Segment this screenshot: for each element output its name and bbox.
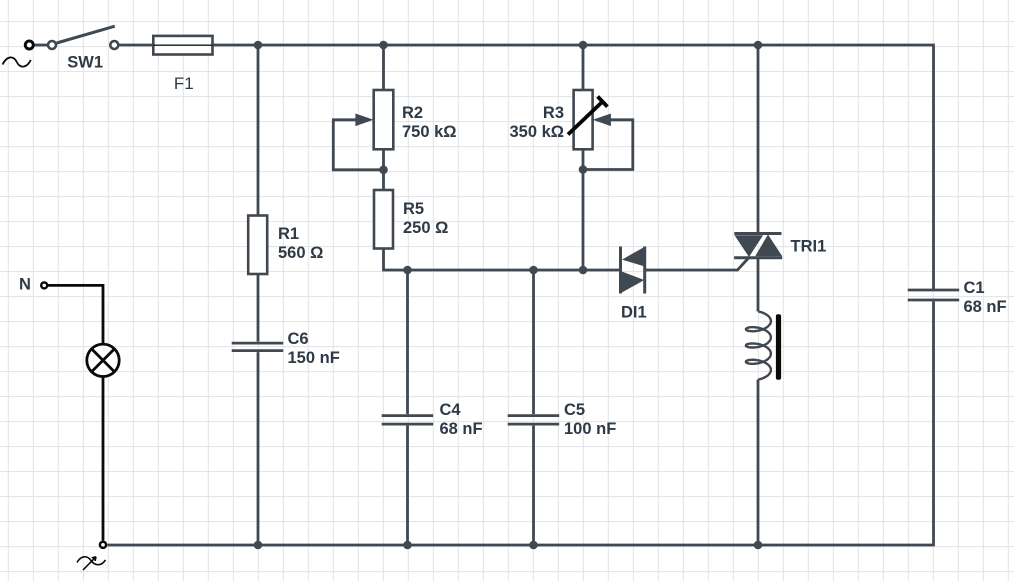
diac DI1 lower triangle	[621, 271, 645, 293]
diac DI1 left bar	[619, 247, 622, 294]
junction dot mid rail / R3	[579, 266, 588, 275]
svg-text:C1: C1	[964, 279, 985, 297]
wire: N to lamp	[47, 285, 103, 344]
wire: terminal to switch	[35, 44, 49, 47]
wire: diac to triac gate	[645, 258, 749, 270]
capacitor C5 plates	[508, 416, 560, 425]
inductor L1 coil	[746, 312, 771, 380]
R3 adjustment mark (screwdriver slot)	[568, 102, 603, 135]
R2 wiper return wire	[333, 120, 383, 170]
svg-text:750 kΩ: 750 kΩ	[402, 123, 457, 141]
svg-text:R5: R5	[403, 200, 424, 218]
wire: top rail down to R3	[582, 45, 585, 90]
junction dot bottom rail / C5 branch	[529, 541, 538, 550]
R3 wiper return wire	[583, 120, 633, 170]
capacitor C1 plates	[908, 290, 960, 300]
svg-text:68 nF: 68 nF	[964, 298, 1007, 316]
svg-text:SW1: SW1	[67, 54, 103, 72]
switch SW1 right contact	[110, 41, 118, 49]
svg-text:TRI1: TRI1	[791, 238, 827, 256]
resistor R1 body	[248, 216, 267, 275]
svg-text:560 Ω: 560 Ω	[278, 244, 323, 262]
switch SW1 left contact	[48, 41, 56, 49]
wire: lamp to bottom terminal	[102, 377, 105, 541]
svg-text:350 kΩ: 350 kΩ	[509, 123, 564, 141]
svg-text:150 nF: 150 nF	[288, 349, 340, 367]
junction dot top rail / R1 branch	[254, 41, 263, 50]
diac DI1 upper triangle	[622, 247, 645, 267]
junction dot top rail / R3 branch	[579, 41, 588, 50]
fuse F1 body	[153, 36, 212, 55]
node N terminal	[41, 282, 47, 288]
lamp LA1 cross	[92, 349, 115, 372]
wire: top rail (fuse to top-right corner, down right side to C1)	[213, 45, 934, 290]
svg-text:68 nF: 68 nF	[440, 420, 483, 438]
wire: C1 down right side to bottom-right corner	[108, 302, 934, 546]
wire: R1 to C6	[257, 274, 260, 342]
wire: C5 to bottom rail	[532, 426, 535, 545]
triac TRI1 left triangle	[735, 235, 764, 257]
junction dot top rail / TRI1 branch	[754, 41, 763, 50]
wire: top rail down to R1	[257, 45, 260, 216]
triac TRI1 bottom bar	[734, 256, 782, 259]
phase squiggle diagonal arrow	[83, 557, 96, 570]
fuse F1 element line	[153, 44, 212, 46]
svg-text:100 nF: 100 nF	[564, 420, 616, 438]
wire: top rail down to TRI1	[757, 45, 760, 234]
lamp LA1 circle	[87, 344, 119, 376]
svg-text:R3: R3	[543, 104, 564, 122]
junction dot bottom rail / C6 branch	[254, 541, 263, 550]
wire: R5 bottom to mid rail	[384, 249, 621, 271]
junction dot top rail / R2 branch	[379, 41, 388, 50]
svg-text:R1: R1	[278, 225, 299, 243]
junction dot mid rail / C5	[529, 266, 538, 275]
switch SW1 lever	[57, 26, 115, 43]
svg-text:N: N	[19, 275, 31, 293]
phase squiggle symbol (tilde)	[77, 557, 106, 565]
svg-text:C5: C5	[564, 401, 585, 419]
junction dot R2 wiper node	[379, 166, 388, 175]
triac TRI1 right triangle	[755, 235, 782, 257]
svg-text:C6: C6	[288, 330, 309, 348]
wire: C6 to bottom rail	[257, 352, 260, 545]
wire: R3 bottom to mid rail	[582, 149, 585, 270]
wire: switch to fuse	[119, 44, 154, 47]
svg-text:F1: F1	[174, 74, 194, 93]
wire: top rail down to R2	[382, 45, 385, 90]
junction dot R3 wiper node	[579, 165, 588, 174]
wire: triac to inductor	[757, 259, 760, 312]
capacitor C4 plates	[382, 416, 434, 425]
junction dot mid rail / C4	[403, 266, 412, 275]
svg-text:DI1: DI1	[621, 304, 647, 322]
R3 wiper arrow	[593, 114, 611, 127]
wire: mid rail down to C5	[532, 270, 535, 414]
potentiometer R2 body	[374, 90, 394, 149]
svg-text:R2: R2	[402, 104, 423, 122]
svg-text:C4: C4	[440, 401, 462, 419]
resistor R5 body	[374, 190, 393, 249]
junction dot bottom rail / C4 branch	[403, 541, 412, 550]
triac TRI1 top bar	[734, 232, 781, 235]
potentiometer R3 body	[574, 90, 593, 149]
AC tilde symbol	[3, 57, 31, 66]
AC source terminal (top-left)	[25, 41, 33, 49]
junction dot bottom rail / TRI1 branch	[754, 541, 763, 550]
bottom phase terminal	[100, 542, 106, 548]
wire: inductor to bottom rail	[757, 380, 760, 546]
inductor core bar	[776, 314, 781, 379]
diac DI1 right bar	[643, 247, 646, 294]
wire: mid rail down to C4	[406, 270, 409, 414]
R2 wiper arrow	[355, 114, 373, 127]
wire: C4 to bottom rail	[406, 426, 409, 545]
capacitor C6 plates	[232, 343, 284, 351]
wire: R2 bottom to R5 top	[382, 149, 385, 190]
svg-text:250 Ω: 250 Ω	[403, 219, 448, 237]
